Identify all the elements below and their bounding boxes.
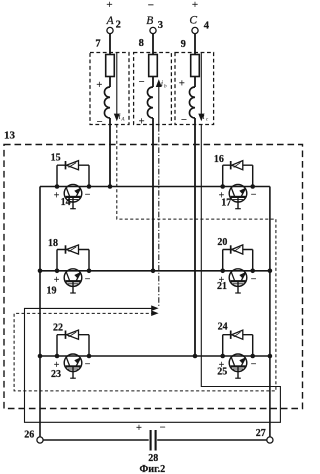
svg-text:23: 23 xyxy=(51,369,61,380)
svg-text:b: b xyxy=(164,83,167,89)
wire: bottom DC rail xyxy=(43,439,149,441)
junction dots xyxy=(55,184,60,189)
diode 18 (free-wheeling, anti-parallel) xyxy=(57,245,89,271)
svg-text:−: − xyxy=(251,190,257,201)
wire: row 3 horizontal (phase C leg) xyxy=(40,355,270,357)
transistor 23 xyxy=(64,354,82,379)
wire: right DC bus xyxy=(269,187,271,437)
dash-dot return line of phase B (i_B) xyxy=(158,126,160,306)
svg-text:+: + xyxy=(179,78,185,89)
svg-text:3: 3 xyxy=(158,20,163,31)
wire: left DC bus xyxy=(39,187,41,437)
dashed block 8 (phase B source branch) xyxy=(134,53,172,125)
svg-text:21: 21 xyxy=(217,281,227,292)
svg-text:Фиг.2: Фиг.2 xyxy=(140,464,166,474)
svg-text:22: 22 xyxy=(53,323,63,334)
svg-text:C: C xyxy=(189,14,197,26)
diode 24 (free-wheeling, anti-parallel) xyxy=(223,330,253,356)
svg-text:+: + xyxy=(136,423,142,434)
svg-text:B: B xyxy=(146,15,153,27)
svg-text:+: + xyxy=(192,0,198,11)
svg-text:20: 20 xyxy=(217,237,227,248)
terminal 3 (phase B) xyxy=(150,27,156,33)
current arrow i_B xyxy=(158,86,160,127)
inductor winding of branch 7 xyxy=(104,87,110,118)
svg-text:26: 26 xyxy=(24,429,34,440)
transistor 17 xyxy=(229,185,247,210)
svg-text:−: − xyxy=(97,117,103,128)
wire: phase A vertical xyxy=(109,34,111,87)
svg-text:13: 13 xyxy=(4,129,16,141)
wire: row 2 horizontal (phase B leg) xyxy=(40,270,270,272)
terminal 27 xyxy=(267,437,273,443)
svg-text:+: + xyxy=(96,80,102,91)
svg-text:−: − xyxy=(85,359,91,370)
svg-text:27: 27 xyxy=(256,428,266,439)
svg-text:18: 18 xyxy=(48,238,58,249)
svg-text:−: − xyxy=(251,274,257,285)
diode 15 (free-wheeling, anti-parallel) xyxy=(57,161,89,187)
inductor winding of branch 8 xyxy=(147,87,153,118)
dashed block 7 (phase A source branch) xyxy=(90,53,129,125)
svg-text:28: 28 xyxy=(148,453,158,464)
svg-text:−: − xyxy=(181,115,187,126)
svg-text:−: − xyxy=(160,423,166,434)
dashed current-loop of phase A (i_A return path) xyxy=(14,125,276,391)
svg-text:−: − xyxy=(251,359,257,370)
svg-text:−: − xyxy=(85,190,91,201)
svg-text:4: 4 xyxy=(204,21,210,32)
current arrow i_A xyxy=(116,53,118,116)
dashed block 9 (phase C source branch) xyxy=(175,53,214,125)
svg-text:25: 25 xyxy=(217,367,227,378)
svg-text:17: 17 xyxy=(221,198,231,209)
svg-text:2: 2 xyxy=(116,20,121,31)
terminal 4 (phase C) xyxy=(192,27,198,33)
svg-text:24: 24 xyxy=(218,322,228,333)
inductor winding of branch 9 xyxy=(189,87,195,118)
svg-text:+: + xyxy=(139,116,145,127)
svg-text:19: 19 xyxy=(47,286,57,297)
transistor 14 xyxy=(64,185,82,210)
svg-text:9: 9 xyxy=(181,39,186,50)
svg-text:−: − xyxy=(139,77,145,88)
svg-text:14: 14 xyxy=(61,197,71,208)
diode 20 (free-wheeling, anti-parallel) xyxy=(223,245,253,271)
wire: phase B vertical xyxy=(152,34,154,87)
transistor 19 xyxy=(64,269,82,294)
resistor 7 rectangle xyxy=(106,55,115,77)
terminal 2 (phase A) xyxy=(107,27,113,33)
transistor 25 xyxy=(229,354,247,379)
transistor 21 xyxy=(229,269,247,294)
svg-text:16: 16 xyxy=(214,154,224,165)
svg-text:−: − xyxy=(85,274,91,285)
svg-text:−: − xyxy=(148,0,154,12)
converter block 13 dashed outline xyxy=(4,145,303,409)
resistor 8 rectangle xyxy=(149,55,158,77)
capacitor 28 xyxy=(150,430,152,451)
svg-text:+: + xyxy=(54,191,60,202)
solid current-loop of phase C (i_C return path) xyxy=(25,125,281,423)
svg-text:7: 7 xyxy=(95,39,100,50)
current arrow i_C xyxy=(200,53,202,116)
terminal 26 xyxy=(37,437,43,443)
diode 22 (free-wheeling, anti-parallel) xyxy=(57,330,89,356)
wire: row 1 horizontal (phase A leg) xyxy=(40,186,270,188)
resistor 9 rectangle xyxy=(191,55,200,77)
wire: phase C vertical xyxy=(194,34,196,87)
svg-text:A: A xyxy=(106,15,115,27)
svg-text:+: + xyxy=(106,0,112,11)
svg-text:8: 8 xyxy=(139,38,144,49)
svg-text:+: + xyxy=(54,275,60,286)
diode 16 (free-wheeling, anti-parallel) xyxy=(223,161,253,187)
svg-text:15: 15 xyxy=(51,153,61,164)
